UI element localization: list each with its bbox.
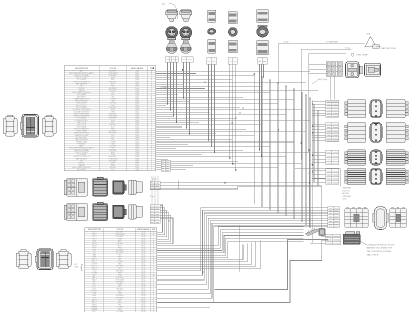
- injector connector INJ2 face view: [180, 27, 192, 40]
- wire vertical x239 segment: [239, 225, 241, 272]
- connector M1 face view: [113, 181, 127, 195]
- connector R4 rear view: [386, 168, 408, 185]
- wire into pin block PB6: [310, 242, 326, 244]
- terminal strip TS5: [258, 58, 268, 64]
- wire bundle from table T1: [156, 70, 311, 72]
- connector R2 face view: [370, 122, 382, 142]
- right feeder bus vertical: [311, 100, 313, 243]
- svg-text:10 ga: 10 ga: [345, 48, 351, 50]
- svg-text:USED: USED: [74, 266, 79, 268]
- svg-text:CONNECTOR PINOUT IS NOT: CONNECTOR PINOUT IS NOT: [367, 244, 396, 246]
- svg-text:L-SENSE: L-SENSE: [161, 87, 170, 89]
- svg-text:10 ga: 10 ga: [284, 42, 290, 44]
- wire bundle from table T2 to pin block PB8: [157, 205, 163, 232]
- connector J1 side view: [3, 115, 17, 136]
- connector R5 face view: [373, 207, 388, 230]
- connector C3 top view: [208, 10, 216, 22]
- connector C4 face view: [228, 28, 237, 37]
- connector R4 side view: [345, 168, 366, 185]
- connector J2 face view: [35, 249, 53, 270]
- svg-text:THE 11/16 WITH LOCKING: THE 11/16 WITH LOCKING: [367, 251, 392, 253]
- wire T2 row 33 stub: [157, 306, 211, 308]
- fuel pump connector P1 mate: [365, 63, 381, 76]
- connector C4 side view: [228, 40, 237, 53]
- connector R2 rear view: [386, 122, 408, 142]
- note leader line: [360, 241, 366, 245]
- connector J1 rear view: [42, 115, 56, 136]
- injector connector INJ1 face view: [166, 27, 178, 40]
- connector R1 face view: [370, 100, 382, 118]
- wire big loop bottom right: [215, 240, 328, 290]
- wire fuel pump ground: [309, 53, 346, 55]
- connector C5 face view: [257, 27, 269, 37]
- svg-text:TO BATTERY: TO BATTERY: [326, 41, 339, 44]
- pin block PB8: [150, 205, 160, 224]
- wire table T2 rows text: [85, 232, 157, 234]
- terminal strip TS4: [228, 58, 237, 64]
- wire to ground lug: [295, 168, 341, 186]
- connector M1 mate view: [129, 180, 143, 195]
- connector M1 side view: [93, 177, 108, 196]
- wire right drop to PB6: [322, 186, 328, 237]
- connector M2 mate view: [129, 205, 143, 220]
- injector connector INJ1 top view: [166, 10, 178, 23]
- pin block PB6: [326, 234, 341, 244]
- svg-text:MARKED ON CONNECTOR.: MARKED ON CONNECTOR.: [367, 247, 394, 250]
- svg-text:FUEL PUMP: FUEL PUMP: [357, 55, 369, 57]
- connector R6 dark side view: [343, 232, 360, 245]
- wire table T2 frame: [85, 228, 157, 312]
- wires into pin block PB2: [312, 123, 325, 125]
- wires into pin block PB4: [312, 170, 325, 172]
- wire bundle from table T2 bottom rows up to pin block PB5: [157, 208, 328, 271]
- terminal strip TS3: [207, 58, 217, 64]
- terminal strip TS2: [182, 57, 194, 63]
- svg-text:GROUND: GROUND: [343, 196, 352, 198]
- connector R1 rear view: [386, 100, 408, 118]
- injector connector INJ2 top view: [180, 10, 192, 23]
- wires into fuel pump relay base: [309, 63, 326, 65]
- connector C5 side view: [257, 40, 269, 60]
- svg-text:LUG: LUG: [343, 199, 347, 201]
- pin block PB7: [150, 181, 160, 189]
- svg-text:18 ga: 18 ga: [135, 169, 139, 171]
- connector R3 side view: [345, 150, 366, 165]
- injector connector INJ2 side view: [180, 41, 191, 54]
- wire bus down to splice: [308, 150, 310, 227]
- pin block PB1: [326, 100, 339, 117]
- connector R2 side view: [345, 122, 366, 142]
- pin block PB0: [161, 160, 170, 171]
- wire table T1 rows text: [64, 71, 156, 73]
- pin block PB2: [326, 123, 339, 142]
- wire risers into pin block PB8: [150, 176, 152, 204]
- fuel pump connector P1 face: [346, 62, 363, 78]
- injector connector INJ1 side view: [166, 41, 177, 54]
- svg-text:WIRE GAUGE: WIRE GAUGE: [137, 228, 150, 231]
- wire to battery: [278, 42, 364, 44]
- wire fan verticals: [253, 74, 255, 204]
- wire drops from fuel pump connector: [329, 76, 331, 99]
- wire table T2 header text: [88, 228, 156, 231]
- wires into pin block PB3: [312, 151, 325, 153]
- connector R5 side view: [345, 207, 368, 227]
- connector C3 face view: [208, 28, 216, 34]
- svg-text:BLK (2 ga): BLK (2 ga): [318, 79, 327, 81]
- junction dots: [167, 103, 168, 104]
- svg-text:EST SPARK: EST SPARK: [77, 168, 87, 171]
- wires into pin block PB1: [312, 101, 325, 103]
- wire step line: [150, 186, 322, 189]
- connector M1 body: [64, 179, 87, 197]
- leader BLK label: [312, 81, 318, 85]
- wire long horizontal mid: [225, 182, 309, 184]
- pin block PB5: [328, 207, 340, 228]
- connector R3 rear view: [386, 150, 408, 165]
- connector J1 face view: [20, 115, 38, 138]
- connector R4 face view: [370, 168, 382, 185]
- wire table T1 frame: [64, 66, 156, 171]
- splice lug D1 with wire fan: [305, 228, 325, 236]
- terminal strip TS1: [166, 57, 179, 63]
- wire table T1 header text: [75, 67, 154, 70]
- wire drops from top connectors: [167, 62, 169, 104]
- connector C4 top view: [228, 12, 237, 24]
- pin block PB3: [326, 150, 339, 164]
- fuse F1 30A: [365, 36, 379, 48]
- svg-text:GROUND: GROUND: [343, 188, 352, 190]
- wire bundle from table T2 rows 12-16 wrap up: [157, 245, 244, 260]
- wire drop battery: [277, 43, 279, 160]
- wire drop fuel pump gnd: [308, 54, 310, 150]
- svg-text:TAB = PIN ‘A’: TAB = PIN ‘A’: [367, 254, 380, 257]
- connector M2 face view: [113, 205, 127, 219]
- pin block PB4: [326, 169, 339, 185]
- wires from pin block PB7: [160, 182, 309, 184]
- svg-text:BLOCK: BLOCK: [343, 193, 350, 195]
- connector R3 face view: [370, 150, 382, 165]
- svg-text:LUG TO: LUG TO: [343, 190, 350, 192]
- connector R1 side view: [345, 100, 366, 118]
- wire drop fuel pump feed: [300, 49, 302, 160]
- connector J2 rear view: [56, 250, 71, 269]
- fuel pump relay base P1 grid: [326, 62, 343, 77]
- connector M2 body: [64, 204, 87, 221]
- svg-text:2-B: 2-B: [162, 4, 166, 6]
- connector R5 rear view: [390, 207, 407, 227]
- connector J2 side view: [16, 250, 31, 269]
- connector C5 top view: [257, 10, 269, 28]
- wire bundle from table T2 mid rows to splice: [157, 227, 304, 246]
- svg-text:BATTERY FUEL: BATTERY FUEL: [382, 47, 398, 50]
- connector C3 side view: [208, 39, 216, 53]
- wire fuel pump feed: [301, 48, 351, 50]
- connector M2 side view: [93, 202, 108, 220]
